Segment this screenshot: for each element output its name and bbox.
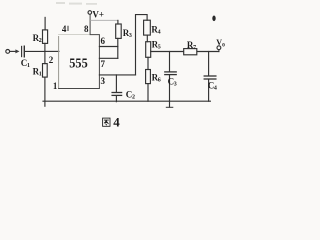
caption 图 4: [103, 118, 110, 126]
pin 6 wire: [99, 46, 117, 48]
output bus wire: [151, 51, 219, 53]
svg-text:7: 7: [101, 59, 106, 69]
input arrow: [10, 49, 20, 53]
wire R5-R6: [147, 57, 149, 69]
node A vertical (R2 bottom to R1 top): [44, 43, 46, 63]
wire C1 to node A: [25, 50, 45, 52]
resistor R6: [146, 70, 151, 102]
resistor R2: [43, 17, 48, 43]
svg-text:555: 555: [69, 55, 88, 70]
svg-text:8: 8: [84, 24, 89, 34]
svg-text:4: 4: [113, 115, 120, 130]
capacitor C4: [204, 52, 216, 102]
wire riser pin3 to R4 top: [136, 15, 148, 75]
svg-text:1: 1: [53, 81, 58, 91]
resistor R7: [184, 49, 197, 55]
ink blob: [212, 15, 215, 21]
input terminal: [6, 50, 10, 54]
ghost print-through dashes (decorative): [56, 2, 97, 5]
svg-text:3: 3: [101, 76, 106, 86]
terminal V0: [217, 46, 221, 52]
ground rail: [43, 100, 210, 102]
svg-text:6: 6: [101, 36, 106, 46]
resistor R5: [146, 42, 151, 58]
resistor R1: [43, 64, 48, 107]
faint V+ rail to R3: [91, 19, 118, 21]
capacitor C1: [22, 46, 25, 57]
pin 4 stub: [67, 26, 69, 30]
pin 3 wire: [99, 74, 135, 76]
wire R4-R5: [146, 35, 148, 42]
capacitor C3: [165, 52, 176, 108]
pin 7 wire: [99, 57, 117, 59]
svg-text:4: 4: [62, 24, 67, 34]
V+ terminal: [88, 11, 92, 15]
svg-text:2: 2: [49, 55, 54, 65]
resistor R4: [144, 20, 151, 35]
resistor R3: [116, 20, 122, 58]
capacitor C2: [112, 75, 122, 102]
555 chip U1 outline: [59, 15, 100, 89]
wire node A to pin 2: [45, 50, 59, 52]
svg-text:V+: V+: [92, 9, 104, 19]
